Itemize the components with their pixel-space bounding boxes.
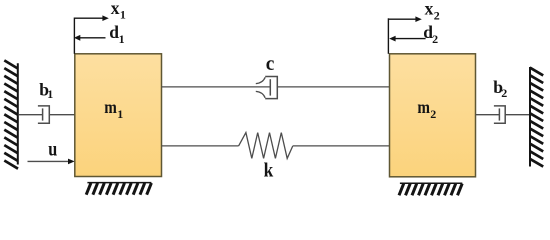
damper b1 piston [42,108,44,120]
displacement arrow d2 [389,36,425,42]
svg-text:u: u [48,139,57,161]
svg-text:2: 2 [501,86,507,100]
damper c cylinder [265,77,277,99]
displacement arrow d1 [74,35,106,41]
svg-text:x: x [425,0,434,19]
reference vertical line above m2 [387,18,389,54]
svg-text:1: 1 [117,107,123,121]
svg-text:k: k [264,159,274,181]
damper b2 cylinder [494,106,505,123]
damper c rod to mass m2 [277,86,389,88]
svg-text:1: 1 [47,87,53,101]
ground hatching under m1 [86,183,151,195]
svg-text:m: m [104,97,117,117]
spring k zigzag coil [239,133,293,159]
damper b1 cylinder [38,106,49,123]
damper c rod from mass m1 [162,86,271,88]
damper c piston [269,79,271,95]
spring k rod to mass m2 [293,145,390,147]
right wall (fixed support) [530,67,543,167]
mass m1 block [75,54,162,177]
reference vertical line above m1 [73,18,75,54]
left wall (fixed support) [4,60,18,168]
mass m2 block [390,54,476,177]
ground hatching under m2 [399,183,462,195]
damper b2 rod to wall [505,114,529,116]
force arrow u [28,159,75,165]
damper c bell flare bottom [256,91,265,98]
damper b2 rod from mass m2 [476,114,500,116]
damper c bell flare top [256,77,265,83]
damper b1 rod to mass m1 [49,114,75,116]
damper b2 piston [498,108,500,120]
displacement arrow x1 [74,15,108,21]
svg-text:2: 2 [432,32,438,46]
spring k rod from mass m1 [162,145,239,147]
svg-text:x: x [111,0,120,18]
svg-text:1: 1 [119,32,125,46]
svg-text:c: c [266,53,275,75]
svg-text:m: m [417,97,430,117]
svg-text:2: 2 [434,8,440,22]
svg-text:2: 2 [430,107,436,121]
svg-text:1: 1 [120,7,126,21]
displacement arrow x2 [388,16,421,22]
damper b1 rod from wall [19,114,43,116]
